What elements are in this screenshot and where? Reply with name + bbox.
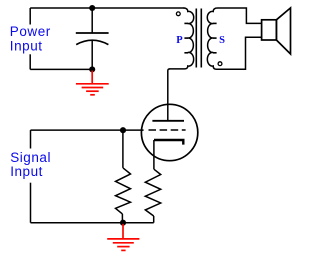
capacitor C1 top plate [76, 32, 109, 34]
label Signal Input [10, 150, 51, 179]
node junction dot bottom rail / ground [120, 220, 126, 226]
wire power input left vertical (lower segment) [29, 54, 31, 69]
node junction dot bottom of capacitor [89, 66, 95, 72]
transformer phase dot primary [176, 12, 180, 16]
wire primary bottom to tube plate [168, 69, 170, 121]
wire signal input top rail to grid [31, 129, 144, 131]
wire signal input left vertical (lower segment) [30, 183, 32, 223]
tube V1 envelope circle [141, 104, 197, 160]
tube V1 grid (dashed) [149, 129, 186, 131]
node junction dot top of capacitor [89, 5, 95, 11]
wire grid junction down to R1 [122, 130, 124, 168]
node junction dot grid / resistor R1 [120, 127, 126, 133]
ground signal/cathode [107, 224, 139, 251]
svg-text:Input: Input [10, 164, 43, 179]
capacitor C1 bottom curved plate [76, 40, 108, 44]
wire signal input left vertical (upper segment) [30, 130, 32, 148]
label Power Input [10, 24, 51, 53]
wire top rail (B+ rail from power input to transformer primary) [30, 7, 184, 9]
tube V1 plate [152, 120, 184, 122]
wire capacitor top lead [91, 8, 93, 33]
wire R2 bottom lead [153, 216, 155, 223]
wire power input bottom rail [30, 68, 92, 70]
transformer primary winding cusp ticks [184, 23, 188, 52]
ground power input [76, 71, 109, 95]
resistor R1 grid leak zigzag [116, 168, 131, 214]
speaker LS1 horn cone [276, 8, 290, 54]
transformer T1 secondary winding S [207, 8, 261, 69]
transformer secondary winding cusp ticks [213, 23, 217, 52]
wire capacitor bottom lead [91, 41, 93, 69]
transformer T1 primary winding P [170, 8, 194, 69]
svg-text:S: S [219, 35, 225, 46]
wire R1 bottom lead [121, 214, 123, 223]
transformer phase dot secondary [218, 62, 222, 66]
transformer core line left [195, 9, 197, 68]
tube V1 cathode [154, 140, 183, 145]
speaker LS1 driver box [262, 20, 277, 40]
transformer core line right [200, 9, 202, 68]
wire bottom rail [31, 222, 154, 224]
resistor R2 cathode zigzag [145, 169, 160, 216]
svg-text:Power: Power [10, 24, 51, 39]
wire power input left vertical (upper segment) [29, 8, 31, 25]
svg-text:P: P [176, 35, 183, 46]
svg-text:Input: Input [10, 38, 43, 53]
wire cathode lead down to cathode resistor [153, 140, 155, 169]
svg-text:Signal: Signal [10, 150, 51, 165]
